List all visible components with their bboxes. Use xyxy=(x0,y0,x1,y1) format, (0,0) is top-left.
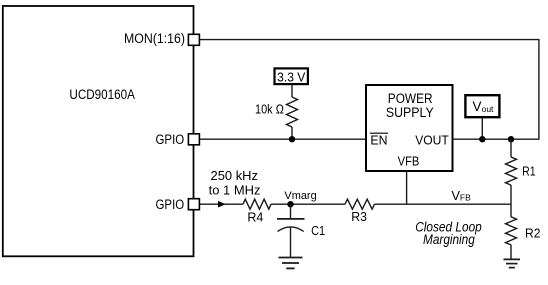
svg-text:V: V xyxy=(473,99,482,114)
svg-text:3.3 V: 3.3 V xyxy=(277,69,306,84)
svg-text:GPIO: GPIO xyxy=(156,197,185,212)
svg-text:to 1 MHz: to 1 MHz xyxy=(209,182,261,197)
resistor R2 zigzag xyxy=(506,217,517,245)
junction dot Vmarg xyxy=(287,201,293,207)
junction dot Vout tap xyxy=(479,136,485,142)
arrow on GPIO2 wire xyxy=(218,201,225,207)
ground under C1 xyxy=(279,258,303,269)
svg-text:out: out xyxy=(482,104,494,114)
capacitor C1 top plate xyxy=(277,218,305,220)
svg-text:VFB: VFB xyxy=(398,153,420,168)
node Vout box xyxy=(465,95,499,117)
wire VFB pin down to bottom net xyxy=(406,171,408,204)
svg-text:FB: FB xyxy=(460,192,471,202)
ground under R2 xyxy=(504,259,521,267)
svg-text:SUPPLY: SUPPLY xyxy=(386,105,434,120)
svg-text:MON(1:16): MON(1:16) xyxy=(124,31,185,46)
pin square GPIO1 xyxy=(188,134,199,145)
capacitor C1 curved bottom plate xyxy=(278,227,304,232)
wire Vout box stem xyxy=(481,117,483,139)
svg-text:10k Ω: 10k Ω xyxy=(255,101,284,116)
svg-text:250 kHz: 250 kHz xyxy=(211,168,259,183)
wire 3.3V to resistor xyxy=(291,84,293,97)
svg-text:UCD90160A: UCD90160A xyxy=(69,87,134,102)
svg-text:VOUT: VOUT xyxy=(415,132,449,147)
capacitor C1: top stem xyxy=(290,204,292,219)
wire R1 top lead xyxy=(510,139,512,157)
svg-text:C1: C1 xyxy=(311,223,325,238)
resistor 10k zigzag xyxy=(287,97,298,127)
capacitor C1 bottom stem xyxy=(290,227,292,258)
junction dot R1 tap xyxy=(508,136,514,142)
supply rail box 3.3 V xyxy=(275,68,308,84)
wire resistor bottom to EN wire xyxy=(291,127,293,139)
IC U1 UCD90160A body xyxy=(3,6,194,256)
wire R2 bottom lead xyxy=(510,245,512,260)
power supply box U2 xyxy=(366,85,453,171)
pin square GPIO2 xyxy=(188,199,199,210)
wire R1 bottom lead xyxy=(510,185,512,217)
svg-text:GPIO: GPIO xyxy=(156,132,185,147)
svg-text:POWER: POWER xyxy=(388,91,433,106)
pin square MON xyxy=(188,34,199,45)
resistor R4 zigzag xyxy=(243,199,271,209)
svg-text:R1: R1 xyxy=(522,164,536,178)
resistor R1 zigzag xyxy=(506,157,517,185)
svg-text:Vmarg: Vmarg xyxy=(284,190,316,202)
svg-text:R3: R3 xyxy=(351,210,367,224)
svg-text:R2: R2 xyxy=(525,226,540,240)
svg-text:R4: R4 xyxy=(247,211,263,225)
wire MON net: pin to top-right corner down to VOUT line xyxy=(200,40,539,140)
wire GPIO1 to EN xyxy=(200,138,366,140)
resistor R3 zigzag xyxy=(345,199,374,209)
svg-text:EN: EN xyxy=(370,132,387,147)
wire GPIO2 bottom net to R1/R2 junction xyxy=(200,203,511,205)
svg-text:Margining: Margining xyxy=(423,232,475,247)
junction dot 10k/EN xyxy=(289,136,295,142)
